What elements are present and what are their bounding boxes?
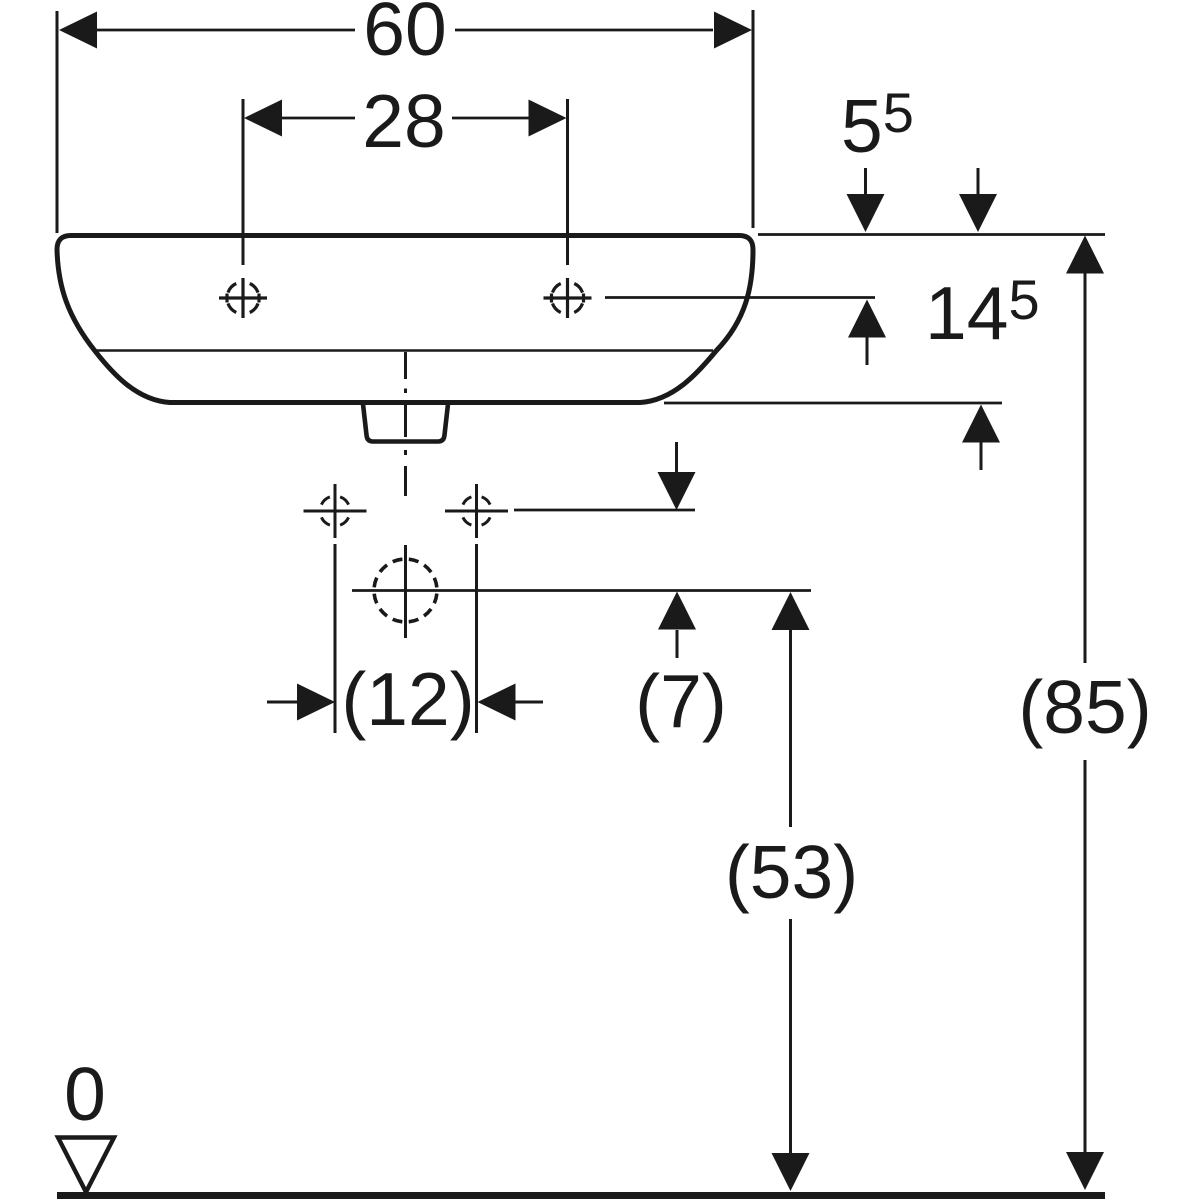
- svg-text:55: 55: [841, 81, 914, 168]
- svg-text:(85): (85): [1018, 665, 1151, 749]
- svg-text:28: 28: [362, 79, 445, 163]
- svg-text:60: 60: [363, 0, 446, 71]
- svg-text:(53): (53): [725, 830, 858, 914]
- svg-text:(12): (12): [341, 657, 474, 741]
- svg-text:0: 0: [64, 1052, 106, 1136]
- svg-text:145: 145: [925, 268, 1040, 355]
- svg-text:(7): (7): [635, 659, 727, 743]
